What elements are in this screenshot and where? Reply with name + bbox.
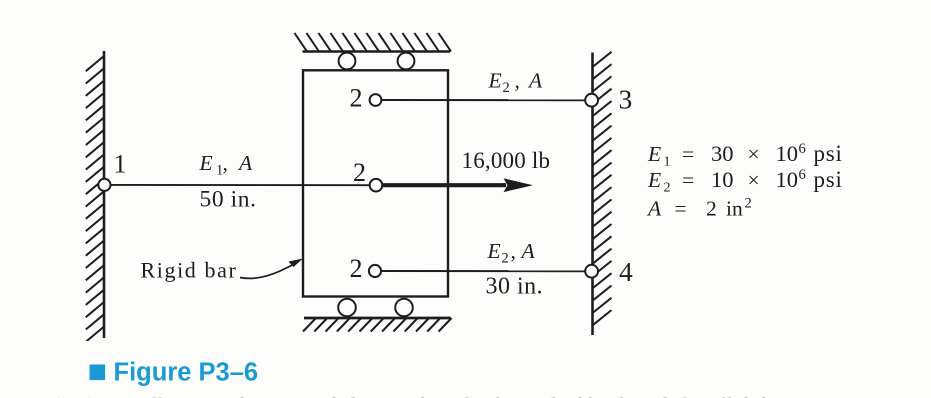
svg-text:2: 2 xyxy=(502,250,509,266)
svg-text:3: 3 xyxy=(619,84,633,115)
svg-text:10: 10 xyxy=(776,167,799,192)
member 2 wire (node 2 top to node 3) xyxy=(382,99,587,101)
node label 3 xyxy=(619,84,633,115)
svg-text:Figure P3–6: Figure P3–6 xyxy=(114,359,259,387)
ceiling hatching (top support) xyxy=(295,33,452,52)
node label 2 (top) xyxy=(350,84,363,113)
node 4 xyxy=(585,265,598,278)
caption square bullet xyxy=(90,365,106,381)
svg-text:1: 1 xyxy=(114,150,127,179)
node label 2 (mid) xyxy=(353,158,366,187)
top roller left xyxy=(339,53,356,70)
svg-text:2: 2 xyxy=(350,84,363,113)
bottom roller right xyxy=(395,299,413,317)
rigid bar rectangle xyxy=(303,70,448,296)
svg-text:=: = xyxy=(682,168,694,192)
svg-text:1: 1 xyxy=(664,154,671,169)
top roller right xyxy=(398,53,415,70)
svg-text:2: 2 xyxy=(664,181,671,196)
node 2 top xyxy=(370,94,382,106)
svg-text:E: E xyxy=(487,239,501,263)
label E1, A on member 1 xyxy=(199,151,254,178)
right wall hatching xyxy=(593,52,612,326)
svg-text:2: 2 xyxy=(503,80,510,96)
label E2, A on member 2 xyxy=(488,68,544,96)
node 3 xyxy=(585,94,598,107)
svg-text:Rigid bar: Rigid bar xyxy=(141,258,238,283)
cropped text row at page bottom xyxy=(2,393,931,398)
node label 1 xyxy=(114,150,127,179)
svg-text:10: 10 xyxy=(711,167,734,192)
caption text Figure P3-6 xyxy=(114,359,259,387)
member 3 wire (node 2 bottom to node 4) xyxy=(381,270,586,272)
node label 2 (bottom) xyxy=(350,254,363,283)
force arrow 16,000 lb xyxy=(382,178,533,192)
ground line xyxy=(304,317,451,320)
label E2, A on member 3 xyxy=(487,239,536,267)
ceiling line xyxy=(303,50,451,53)
svg-text:,: , xyxy=(515,68,520,92)
svg-text:=: = xyxy=(682,142,694,166)
svg-text:4: 4 xyxy=(619,256,633,287)
node label 4 xyxy=(619,256,633,287)
label Rigid bar xyxy=(141,258,238,283)
svg-text:psi: psi xyxy=(814,167,843,192)
equation line E2 = 10 x 10^6 psi xyxy=(647,167,843,196)
svg-text:A: A xyxy=(237,151,253,175)
bottom roller left xyxy=(338,299,356,317)
svg-text:×: × xyxy=(748,142,760,166)
svg-text:30 in.: 30 in. xyxy=(486,274,544,300)
svg-text:A: A xyxy=(527,68,543,92)
label 50 in. on member 1 xyxy=(200,187,257,213)
svg-text:A: A xyxy=(520,239,536,263)
svg-text:16,000 lb: 16,000 lb xyxy=(462,148,551,173)
rigid bar pointer arrow xyxy=(240,259,303,279)
svg-text:×: × xyxy=(748,168,760,192)
svg-text:50 in.: 50 in. xyxy=(200,187,257,213)
svg-text:=: = xyxy=(675,197,687,221)
member 1 wire (node 1 to node 2 mid) xyxy=(104,184,370,186)
svg-text:E: E xyxy=(647,168,661,192)
svg-text:,: , xyxy=(223,151,228,175)
svg-text:6: 6 xyxy=(799,141,806,157)
label 30 in. on member 3 xyxy=(486,274,544,300)
ground hatching (bottom support) xyxy=(303,318,452,332)
left wall line xyxy=(103,51,106,338)
equation line E1 = 30 x 10^6 psi xyxy=(647,141,843,170)
svg-text:A: A xyxy=(646,197,662,221)
svg-text:10: 10 xyxy=(776,141,799,166)
svg-text:2: 2 xyxy=(353,158,366,187)
svg-text:E: E xyxy=(647,142,661,166)
equation line A = 2 in^2 xyxy=(646,196,752,221)
svg-text:tions. (5%) Overall Note and a: tions. (5%) Overall Note and associated … xyxy=(2,393,931,398)
node 2 bottom xyxy=(369,265,381,277)
svg-text:in: in xyxy=(726,197,743,221)
label 16,000 lb force value xyxy=(462,148,551,173)
svg-text:E: E xyxy=(488,68,502,92)
right wall line xyxy=(591,53,594,336)
svg-text:6: 6 xyxy=(799,167,806,183)
svg-text:,: , xyxy=(511,239,516,263)
svg-text:2: 2 xyxy=(350,254,363,283)
svg-text:2: 2 xyxy=(706,197,717,221)
svg-text:E: E xyxy=(199,151,213,175)
svg-text:psi: psi xyxy=(814,141,843,166)
left wall hatching xyxy=(86,56,104,342)
svg-text:30: 30 xyxy=(711,141,734,166)
svg-text:2: 2 xyxy=(745,196,752,212)
node 2 mid xyxy=(370,179,383,192)
node 1 xyxy=(98,179,110,191)
